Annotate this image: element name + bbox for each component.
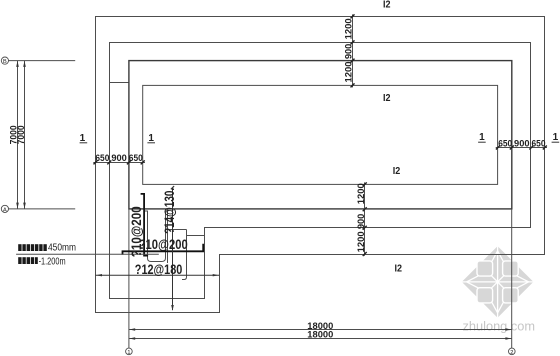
grid circle B <box>1 57 8 64</box>
svg-text:A: A <box>3 207 7 213</box>
svg-text:I2: I2 <box>395 263 403 275</box>
svg-text:1: 1 <box>127 350 130 356</box>
svg-text:650: 650 <box>129 153 143 164</box>
annotation row2 cjk blob <box>18 257 38 264</box>
svg-text:650: 650 <box>498 138 512 149</box>
outline R4 inner pit bottom line <box>143 85 498 184</box>
leader line vertical with arrow <box>172 188 174 310</box>
svg-text:?12@180: ?12@180 <box>135 262 183 277</box>
svg-text:900: 900 <box>514 138 530 149</box>
grid circle A <box>1 205 8 212</box>
svg-text:7000: 7000 <box>16 125 27 144</box>
svg-text:650: 650 <box>532 138 546 149</box>
svg-text:900: 900 <box>356 214 367 230</box>
svg-text:1200: 1200 <box>356 183 367 204</box>
outline R1 outer excavation line with sump notch <box>96 17 545 313</box>
svg-text:?10@200: ?10@200 <box>139 237 188 252</box>
dim 7000 line b <box>24 61 26 209</box>
svg-text:1: 1 <box>479 132 485 143</box>
svg-text:900: 900 <box>344 44 355 60</box>
outline R2 second excavation line with sump notch <box>110 43 531 299</box>
svg-text:1200: 1200 <box>344 62 355 83</box>
svg-text:1: 1 <box>553 132 559 143</box>
svg-text:1200: 1200 <box>356 231 367 252</box>
sump dim line with arrows <box>96 274 220 276</box>
svg-text:900: 900 <box>111 153 127 164</box>
svg-text:I2: I2 <box>383 0 391 10</box>
top dim column 1200 900 1200 <box>352 14 354 87</box>
svg-text:?14@130.: ?14@130. <box>162 188 177 234</box>
grid circle 2 <box>509 348 516 355</box>
grid line B horizontal <box>8 60 75 62</box>
left dim 650 900 650 line <box>93 162 145 164</box>
dim 18000 line upper <box>129 329 512 331</box>
dim 18000 line lower <box>129 338 512 340</box>
grid line A horizontal <box>8 208 75 210</box>
watermark logo diamond <box>462 246 534 318</box>
dim 7000 line a <box>17 61 19 209</box>
sump U profile <box>144 211 168 262</box>
svg-text:I2: I2 <box>393 165 401 177</box>
grid circle 1 <box>126 348 133 355</box>
svg-text:zhulong.com: zhulong.com <box>463 318 536 333</box>
right dim 650 900 650 line <box>496 147 547 149</box>
svg-text:-1.200m: -1.200m <box>39 256 66 267</box>
svg-text:B: B <box>3 59 7 65</box>
svg-text:1200: 1200 <box>344 18 355 39</box>
svg-text:2: 2 <box>510 350 513 356</box>
svg-text:450mm: 450mm <box>48 243 76 254</box>
svg-text:650: 650 <box>95 153 109 164</box>
sump step top <box>168 229 187 231</box>
grid line 2 vertical extension <box>511 209 513 348</box>
rebar vertical bar <box>141 194 149 256</box>
sump right wall <box>167 209 169 263</box>
rebar horizontal bar <box>123 244 204 255</box>
sump connector line <box>187 235 205 237</box>
bottom dim column 1200 900 1200 <box>364 182 366 255</box>
grid line 1 vertical extension <box>128 209 130 348</box>
annotation leader line <box>16 253 159 255</box>
sump step right wall <box>182 230 187 280</box>
svg-text:18000: 18000 <box>307 329 333 340</box>
svg-text:I2: I2 <box>383 92 391 104</box>
connector step line between R2 and R3 left edges <box>110 82 129 84</box>
outline R3 building footprint (bold) <box>129 61 512 209</box>
annotation row1 cjk blob <box>18 244 47 251</box>
